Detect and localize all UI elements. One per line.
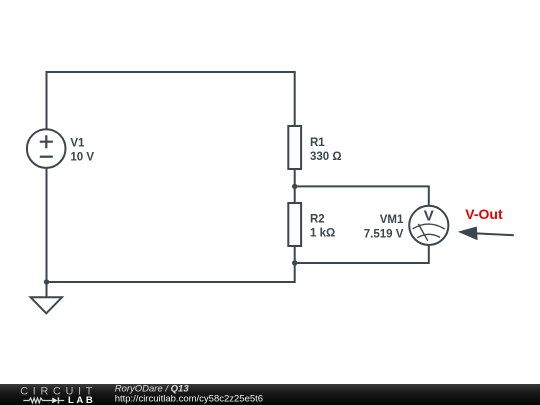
annotation arrow pointing to VM1 <box>458 227 514 241</box>
svg-text:V-Out: V-Out <box>465 206 503 222</box>
ground <box>31 282 62 313</box>
wire: bottom rail <box>47 247 295 282</box>
svg-text:LAB: LAB <box>68 395 95 405</box>
wire: VM1 bottom branch <box>295 245 429 263</box>
voltage source V1 <box>27 129 66 168</box>
wire: V1 bottom to bottom rail <box>46 168 48 282</box>
svg-text:V: V <box>424 207 434 224</box>
resistor R2 <box>288 203 301 246</box>
svg-text:http://circuitlab.com/cy58c2z2: http://circuitlab.com/cy58c2z25e5t6 <box>115 393 263 404</box>
junction: ground node <box>44 279 49 284</box>
label V1 / 10 V <box>70 138 94 164</box>
CircuitLab logo: resistor zigzag and diode <box>23 397 64 403</box>
svg-text:1 kΩ: 1 kΩ <box>310 227 335 239</box>
svg-text:R1: R1 <box>310 137 325 149</box>
wire: R1 to R2 through top node <box>294 170 296 204</box>
svg-text:10 V: 10 V <box>70 152 94 164</box>
label R2 / 1 kΩ <box>310 214 335 240</box>
junction: top node (R1/R2/VM1) <box>292 184 297 189</box>
wire: top rail from V1 to R1 <box>47 72 295 130</box>
svg-text:7.519 V: 7.519 V <box>364 228 404 240</box>
voltmeter VM1 <box>409 206 448 245</box>
svg-text:VM1: VM1 <box>380 214 404 226</box>
svg-text:330 Ω: 330 Ω <box>310 151 342 163</box>
svg-text:V1: V1 <box>70 138 85 150</box>
wire: VM1 top branch <box>295 186 429 206</box>
junction: bottom node (R2/VM1) <box>292 260 297 265</box>
resistor R1 <box>288 126 301 169</box>
label R1 / 330 Ω <box>310 137 342 163</box>
label VM1 / 7.519 V <box>364 214 404 241</box>
svg-text:R2: R2 <box>310 214 325 226</box>
